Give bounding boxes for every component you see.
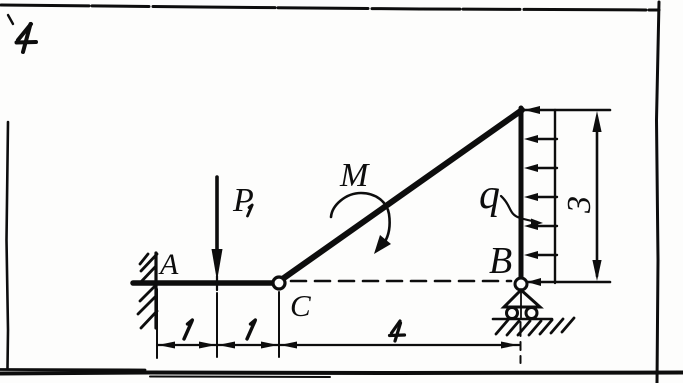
svg-text:A: A — [158, 248, 179, 281]
fixed support hatching — [138, 254, 157, 328]
bottom cell border — [0, 370, 683, 378]
pin at B — [515, 278, 527, 290]
extension line below C — [278, 292, 280, 357]
svg-text:q: q — [479, 172, 500, 218]
svg-text:B: B — [489, 240, 512, 282]
roller circles — [507, 308, 518, 319]
top extension line with load arrow — [524, 109, 610, 112]
force P1 arrow — [212, 177, 223, 290]
svg-text:C: C — [290, 288, 311, 323]
dimension 3 line — [592, 111, 601, 281]
bottom dimension line — [157, 344, 519, 346]
load leader line — [501, 196, 543, 227]
roller ground line — [493, 318, 552, 321]
dashed extension line below B — [520, 322, 522, 363]
dashed chord line C to B — [291, 280, 511, 283]
member C-top (inclined bar) — [281, 110, 522, 280]
left cell border — [7, 122, 9, 368]
extension line below P1 — [216, 293, 218, 357]
member top-B (vertical bar) — [519, 108, 524, 284]
support centre line — [520, 290, 522, 319]
bottom extension line with load arrow — [527, 281, 610, 284]
distributed load arrows — [537, 139, 557, 255]
dimension label 1 (right) — [247, 320, 255, 339]
roller support triangle — [504, 290, 540, 307]
extension line below A — [156, 289, 158, 358]
dimension label 4 — [390, 321, 405, 341]
ground hatching — [496, 318, 574, 335]
fixed support wall at A — [154, 253, 157, 328]
dimension arrowheads — [158, 342, 518, 349]
svg-text:3: 3 — [561, 196, 598, 214]
svg-text:P: P — [232, 182, 254, 219]
svg-text:M: M — [339, 157, 370, 194]
dimension label 1 (left) — [184, 320, 192, 339]
pin joint C — [273, 277, 285, 289]
member AC (horizontal beam) — [133, 280, 276, 286]
figure number 4 — [17, 24, 37, 52]
distributed load line — [554, 110, 556, 283]
top cell border — [1, 5, 659, 24]
moment M arc arrow — [331, 193, 391, 254]
right cell border — [657, 2, 660, 383]
